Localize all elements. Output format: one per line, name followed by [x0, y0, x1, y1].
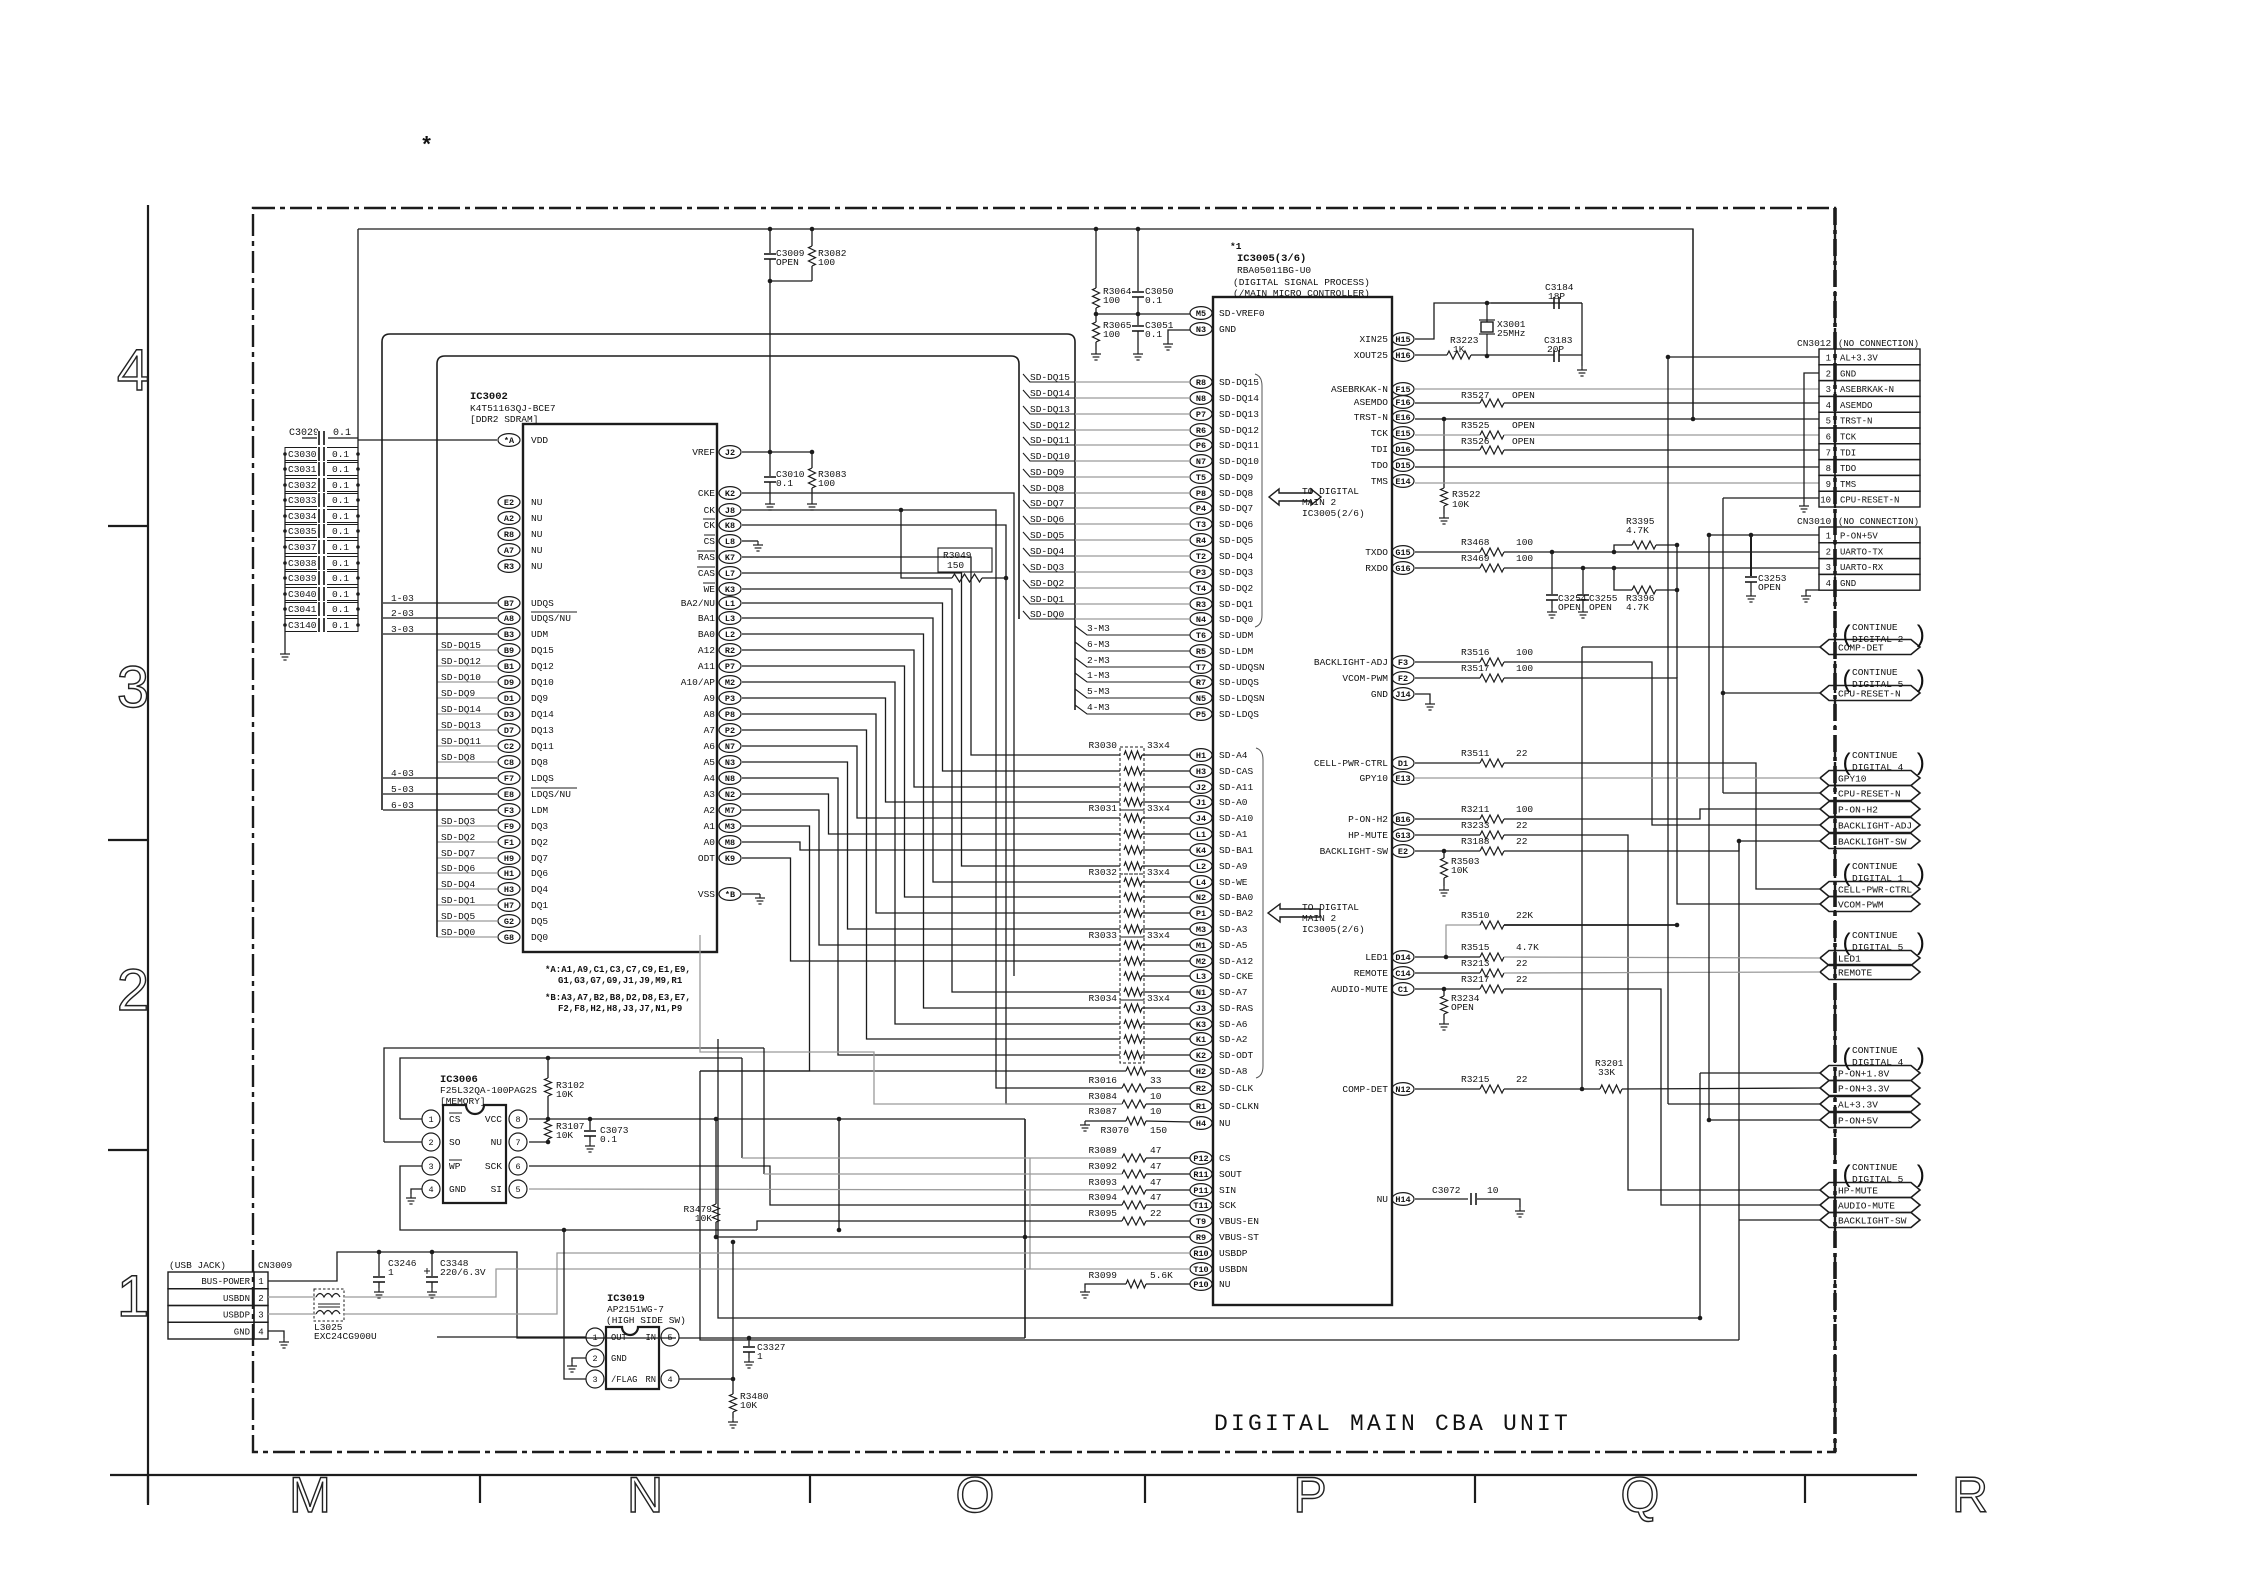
svg-text:2: 2: [1826, 369, 1831, 379]
svg-text:P2: P2: [725, 726, 735, 736]
IC3005 pin H14 NU: [1392, 1193, 1414, 1206]
IC3002 pin *B VSS ground: [742, 893, 760, 895]
svg-text:IC3005(3/6): IC3005(3/6): [1237, 253, 1306, 265]
svg-text:D1: D1: [504, 694, 514, 704]
svg-text:P8: P8: [725, 710, 735, 720]
IC3005 pin J2 SD-A11: [1190, 781, 1212, 794]
svg-text:IC3002: IC3002: [470, 391, 508, 403]
IC3002 pin E2 NU: [498, 496, 520, 509]
IC3006 memory body: [443, 1105, 506, 1203]
net flag P-ON+3.3V (page link): [1820, 1081, 1920, 1096]
capacitor C3255 OPEN: [1581, 566, 1586, 571]
svg-text:R3213: R3213: [1461, 958, 1490, 969]
resistor R3049 150: [938, 548, 992, 572]
svg-text:R6: R6: [1196, 426, 1206, 436]
svg-text:M2: M2: [725, 678, 735, 688]
resistor R3082 100: [811, 229, 813, 246]
resistor R3065 100: [1095, 314, 1097, 322]
svg-text:J2: J2: [725, 448, 735, 458]
svg-text:1-M3: 1-M3: [1087, 670, 1110, 681]
IC3002 pin D3 DQ14: [498, 708, 520, 721]
dash-dot board boundary: [253, 208, 1835, 1452]
IC3005 pin G15 TXDO: [1392, 546, 1414, 559]
IC3005 pin P12 CS: [1190, 1152, 1212, 1165]
svg-text:DQ0: DQ0: [531, 932, 548, 943]
svg-text:TCK: TCK: [1840, 433, 1857, 443]
inductor L3025 EXC24CG900U: [314, 1289, 344, 1321]
svg-text:M7: M7: [725, 806, 735, 816]
svg-text:SD-CKE: SD-CKE: [1219, 971, 1254, 982]
svg-text:G8: G8: [504, 933, 514, 943]
svg-text:VCOM-PWM: VCOM-PWM: [1838, 900, 1884, 911]
IC3005 pin G13 HP-MUTE: [1392, 829, 1414, 842]
svg-text:CONTINUE: CONTINUE: [1852, 1045, 1898, 1056]
svg-text:3: 3: [592, 1375, 597, 1385]
svg-text:SD-A3: SD-A3: [1219, 924, 1248, 935]
svg-text:SD-DQ8: SD-DQ8: [1030, 483, 1065, 494]
CN3012 GND pin2 ground: [1804, 373, 1819, 502]
svg-text:SI: SI: [491, 1184, 502, 1195]
svg-text:L3: L3: [1196, 972, 1206, 982]
IC3019 high side switch body: [606, 1327, 659, 1389]
IC3002 pin K2 CKE: [719, 487, 741, 500]
svg-text:C3040: C3040: [288, 589, 317, 600]
svg-text:0.1: 0.1: [600, 1134, 617, 1145]
wire XIN25 to crystal rail: [1415, 303, 1582, 339]
svg-text:3: 3: [117, 655, 149, 720]
svg-text:E16: E16: [1395, 413, 1410, 423]
svg-text:N2: N2: [725, 790, 735, 800]
svg-text:B7: B7: [504, 599, 514, 609]
svg-text:D3: D3: [504, 710, 514, 720]
svg-text:A12: A12: [698, 645, 715, 656]
svg-text:F3: F3: [1398, 658, 1408, 668]
svg-text:NU: NU: [531, 561, 543, 572]
IC3006 CS overline: [449, 1112, 462, 1114]
svg-text:100: 100: [818, 478, 835, 489]
IC3005 pin P11 SIN: [1190, 1184, 1212, 1197]
IC3005 pin P3 SD-DQ3: [1190, 566, 1212, 579]
svg-text:E15: E15: [1395, 429, 1410, 439]
svg-text:SIN: SIN: [1219, 1185, 1236, 1196]
svg-text:COMP-DET: COMP-DET: [1342, 1084, 1388, 1095]
IC3019 pin 3 /FLAG: [586, 1370, 604, 1388]
svg-text:P-ON+3.3V: P-ON+3.3V: [1838, 1084, 1890, 1095]
svg-text:R3510: R3510: [1461, 910, 1490, 921]
svg-text:J14: J14: [1395, 690, 1410, 700]
wire bottom bus 2: [700, 1071, 1739, 1340]
IC3005 pin M5 SD-VREF0: [1190, 307, 1212, 320]
svg-text:CN3009: CN3009: [258, 1260, 293, 1271]
svg-text:L4: L4: [1196, 878, 1206, 888]
svg-text:R3525: R3525: [1461, 420, 1490, 431]
net flag AUDIO-MUTE (page link): [1820, 1198, 1920, 1213]
svg-text:R3211: R3211: [1461, 804, 1490, 815]
svg-text:R3030: R3030: [1088, 740, 1117, 751]
IC3005 address group bracket: [1256, 748, 1263, 1078]
svg-text:R3: R3: [1196, 600, 1206, 610]
svg-text:N8: N8: [1196, 394, 1206, 404]
svg-text:1: 1: [258, 1277, 263, 1287]
svg-text:SD-DQ6: SD-DQ6: [1219, 519, 1254, 530]
svg-text:C3041: C3041: [288, 604, 317, 615]
svg-text:AUDIO-MUTE: AUDIO-MUTE: [1331, 984, 1388, 995]
svg-text:10: 10: [1820, 496, 1831, 506]
wire SCK net: [529, 1166, 1122, 1205]
IC3002 pin F7 LDQS: [498, 772, 520, 785]
IC3019 pin 1 OUT: [586, 1328, 604, 1346]
svg-text:EXC24CG900U: EXC24CG900U: [314, 1331, 377, 1342]
svg-text:(HIGH SIDE SW): (HIGH SIDE SW): [606, 1315, 686, 1326]
svg-text:CN3010: CN3010: [1797, 516, 1832, 527]
svg-text:H14: H14: [1395, 1195, 1410, 1205]
wire OUT net: [437, 1336, 586, 1338]
wire BUS-POWER: [268, 1252, 676, 1338]
svg-text:J4: J4: [1196, 814, 1206, 824]
svg-text:SD-DQ10: SD-DQ10: [1219, 456, 1259, 467]
svg-text:BUS-POWER: BUS-POWER: [201, 1277, 250, 1287]
svg-text:E8: E8: [504, 790, 514, 800]
svg-text:ASEBRKAK-N: ASEBRKAK-N: [1840, 385, 1894, 395]
svg-text:C3038: C3038: [288, 558, 317, 569]
svg-text:BACKLIGHT-SW: BACKLIGHT-SW: [1838, 837, 1907, 848]
wire SD-DQ1 to pin: [1075, 603, 1190, 605]
svg-text:SD-DQ5: SD-DQ5: [1219, 535, 1254, 546]
svg-text:A11: A11: [698, 661, 715, 672]
svg-text:F16: F16: [1395, 398, 1410, 408]
svg-text:REMOTE: REMOTE: [1354, 968, 1389, 979]
svg-text:UDQS/NU: UDQS/NU: [531, 613, 571, 624]
IC3005 pin R2 SD-CLK: [1190, 1082, 1212, 1095]
svg-text:): ): [1913, 751, 1927, 778]
svg-text:SD-DQ14: SD-DQ14: [1030, 388, 1070, 399]
IC3005 pin N12 COMP-DET: [1392, 1083, 1414, 1096]
svg-text:D15: D15: [1395, 461, 1410, 471]
svg-text:SD-BA2: SD-BA2: [1219, 908, 1254, 919]
svg-text:BACKLIGHT-ADJ: BACKLIGHT-ADJ: [1838, 821, 1912, 832]
svg-text:R3095: R3095: [1088, 1208, 1117, 1219]
wire R3395/R3396 stub down: [1676, 545, 1678, 678]
svg-text:1: 1: [117, 1264, 149, 1329]
svg-text:DQ11: DQ11: [531, 741, 554, 752]
svg-text:): ): [1913, 668, 1927, 695]
IC3005 pin T3 SD-DQ6: [1190, 518, 1212, 531]
wire CPU-RESET-N flag 2: [1723, 792, 1820, 794]
svg-text:SD-A10: SD-A10: [1219, 813, 1254, 824]
svg-text:R3188: R3188: [1461, 836, 1490, 847]
wire USBDN: [268, 1296, 316, 1298]
wire SOUT to R3092: [763, 1048, 765, 1174]
svg-text:150: 150: [1150, 1125, 1167, 1136]
capacitor C3327 1: [747, 1336, 752, 1341]
svg-text:R3: R3: [504, 562, 514, 572]
svg-text:H1: H1: [1196, 751, 1206, 761]
IC3005 pin M2 SD-A12: [1190, 955, 1212, 968]
IC3002 pin *B VSS: [719, 888, 741, 901]
svg-text:P8: P8: [1196, 489, 1206, 499]
svg-text:SD-A11: SD-A11: [1219, 782, 1254, 793]
svg-text:2: 2: [117, 958, 149, 1023]
wire P-ON+1.8V riser: [1699, 1073, 1701, 1318]
svg-text:UDM: UDM: [531, 629, 548, 640]
wire COMP-DET riser: [1581, 647, 1583, 1089]
svg-text:SD-A6: SD-A6: [1219, 1019, 1248, 1030]
svg-text:NU: NU: [1219, 1118, 1231, 1129]
svg-text:R3516: R3516: [1461, 647, 1490, 658]
svg-text:10K: 10K: [740, 1400, 757, 1411]
svg-text:J1: J1: [1196, 798, 1206, 808]
svg-text:BACKLIGHT-SW: BACKLIGHT-SW: [1838, 1216, 1907, 1227]
IC3005 pin R11 SOUT: [1190, 1168, 1212, 1181]
svg-text:22: 22: [1516, 836, 1528, 847]
svg-text:XIN25: XIN25: [1359, 334, 1388, 345]
sheet frame bottom border: [110, 1474, 1917, 1476]
resistor R3522 10K: [1443, 419, 1445, 488]
svg-text:GND: GND: [1840, 369, 1856, 379]
heavy dashed right boundary overlay: [1833, 208, 1837, 1452]
capacitor C3039 0.1: [285, 572, 358, 585]
svg-text:CPU-RESET-N: CPU-RESET-N: [1838, 789, 1901, 800]
IC3002 pin L2 BA0: [719, 628, 741, 641]
net flag GPY10 (page link): [1820, 771, 1920, 786]
wire SD-DQ4 to pin: [1075, 555, 1190, 557]
IC3002 pin A2 NU: [498, 512, 520, 525]
svg-text:6-M3: 6-M3: [1087, 639, 1110, 650]
wire AL+3.3V to CN3012 pin1: [1668, 356, 1819, 358]
svg-text:TMS: TMS: [1371, 476, 1388, 487]
wire clock CKE: [742, 493, 1014, 976]
svg-text:N8: N8: [725, 774, 735, 784]
svg-text:4: 4: [258, 1327, 263, 1337]
IC3002 pin J2 VREF: [719, 446, 741, 459]
net flag BACKLIGHT-SW (page link): [1820, 1213, 1920, 1228]
svg-text:5-M3: 5-M3: [1087, 686, 1110, 697]
wire P-ON-H2 route: [1504, 809, 1820, 819]
svg-text:0.1: 0.1: [332, 589, 349, 600]
svg-text:DQ8: DQ8: [531, 757, 548, 768]
IC3002 pin H3 DQ4: [498, 883, 520, 896]
wire SD-DQ10 to pin: [1075, 460, 1190, 462]
svg-text:0.1: 0.1: [332, 495, 349, 506]
IC3005 pin N8 SD-DQ14: [1190, 392, 1212, 405]
svg-text:CKE: CKE: [698, 488, 715, 499]
svg-text:N7: N7: [1196, 457, 1206, 467]
svg-text:WE: WE: [704, 584, 716, 595]
svg-text:A5: A5: [704, 757, 716, 768]
capacitor C3033 0.1: [285, 494, 358, 507]
svg-text:F3: F3: [504, 806, 514, 816]
wire SD-DQ6 to pin: [1075, 523, 1190, 525]
svg-text:SD-CLK: SD-CLK: [1219, 1083, 1254, 1094]
svg-text:): ): [1913, 931, 1927, 958]
svg-text:F7: F7: [504, 774, 514, 784]
svg-text:3: 3: [258, 1311, 263, 1321]
svg-text:SD-DQ6: SD-DQ6: [1030, 514, 1065, 525]
svg-text:100: 100: [1516, 537, 1533, 548]
svg-text:LDQS/NU: LDQS/NU: [531, 789, 571, 800]
svg-text:A0: A0: [704, 837, 716, 848]
IC3005 pin T5 SD-DQ9: [1190, 471, 1212, 484]
capacitor C3050 0.1: [1137, 229, 1139, 291]
wire /FLAG net: [564, 1230, 586, 1379]
wire ASEBRKAK-N: [1415, 388, 1819, 390]
IC3005 pin C14 REMOTE: [1392, 967, 1414, 980]
net flag P-ON+1.8V (page link): [1820, 1066, 1920, 1081]
IC3002 pin R3 NU: [498, 560, 520, 573]
IC3002 pin C2 DQ11: [498, 740, 520, 753]
svg-text:SD-BA1: SD-BA1: [1219, 845, 1254, 856]
svg-text:(DIGITAL SIGNAL PROCESS): (DIGITAL SIGNAL PROCESS): [1233, 277, 1370, 288]
wire memory rail upper: [384, 1048, 764, 1142]
IC3006 pin 5 SI: [509, 1180, 527, 1198]
IC3002 pin D1 DQ9: [498, 692, 520, 705]
svg-text:VCOM-PWM: VCOM-PWM: [1342, 673, 1388, 684]
svg-text:LED1: LED1: [1365, 952, 1388, 963]
svg-text:T6: T6: [1196, 631, 1206, 641]
svg-text:OPEN: OPEN: [1589, 602, 1612, 613]
svg-text:P-ON-H2: P-ON-H2: [1348, 814, 1388, 825]
svg-text:HP-MUTE: HP-MUTE: [1348, 830, 1388, 841]
svg-text:F2,F8,H2,H8,J3,J7,N1,P9: F2,F8,H2,H8,J3,J7,N1,P9: [558, 1004, 682, 1014]
svg-text:10: 10: [1487, 1185, 1499, 1196]
svg-text:0.1: 0.1: [332, 604, 349, 615]
svg-text:SD-A0: SD-A0: [1219, 797, 1248, 808]
svg-text:USBDN: USBDN: [223, 1294, 250, 1304]
IC3005 pin H15 XIN25: [1392, 333, 1414, 346]
IC3005 pin K2 SD-ODT: [1190, 1049, 1212, 1062]
svg-text:SD-DQ4: SD-DQ4: [1030, 546, 1065, 557]
svg-text:ASEMDO: ASEMDO: [1354, 397, 1389, 408]
svg-text:100: 100: [818, 257, 835, 268]
svg-text:SD-A4: SD-A4: [1219, 750, 1248, 761]
wire CPU-RESET-N to CN3012 pin10: [1723, 497, 1819, 499]
svg-text:UARTO-TX: UARTO-TX: [1840, 547, 1884, 557]
svg-text:CONTINUE: CONTINUE: [1852, 667, 1898, 678]
svg-text:22: 22: [1516, 958, 1528, 969]
capacitor C3140 0.1: [285, 619, 358, 632]
svg-text:UARTO-RX: UARTO-RX: [1840, 563, 1884, 573]
svg-text:GND: GND: [234, 1327, 250, 1337]
svg-text:2-M3: 2-M3: [1087, 655, 1110, 666]
svg-text:18P: 18P: [1548, 291, 1565, 302]
svg-text:N5: N5: [1196, 694, 1206, 704]
svg-text:NU: NU: [1219, 1279, 1231, 1290]
svg-text:SD-A7: SD-A7: [1219, 987, 1248, 998]
svg-text:M3: M3: [725, 822, 735, 832]
column tick marks: [147, 1475, 149, 1503]
svg-text:SD-LDQSN: SD-LDQSN: [1219, 693, 1265, 704]
IC3005 pin R10 USBDP: [1190, 1247, 1212, 1260]
svg-text:SD-DQ15: SD-DQ15: [1219, 377, 1259, 388]
net flag BACKLIGHT-ADJ (page link): [1820, 818, 1920, 833]
capacitor C3254 OPEN: [1550, 550, 1555, 555]
svg-text:A7: A7: [504, 546, 514, 556]
svg-text:10K: 10K: [556, 1130, 573, 1141]
svg-text:0.1: 0.1: [1145, 295, 1162, 306]
svg-text:R2: R2: [1196, 1084, 1206, 1094]
IC3006 GND pin ground: [411, 1189, 422, 1194]
svg-text:L1: L1: [1196, 830, 1206, 840]
IC3005 pin J3 SD-RAS: [1190, 1002, 1212, 1015]
wire SD-VREF0: [1096, 313, 1190, 315]
svg-text:SO: SO: [449, 1137, 461, 1148]
svg-text:LDQS: LDQS: [531, 773, 554, 784]
svg-text:N3: N3: [1196, 325, 1206, 335]
IC3005 pin C1 AUDIO-MUTE: [1392, 983, 1414, 996]
svg-text:CONTINUE: CONTINUE: [1852, 750, 1898, 761]
svg-text:4: 4: [117, 338, 149, 403]
svg-text:8: 8: [1826, 464, 1831, 474]
IC3005 pin B16 P-ON-H2: [1392, 813, 1414, 826]
svg-text:SD-A12: SD-A12: [1219, 956, 1254, 967]
svg-text:0.1: 0.1: [332, 480, 349, 491]
svg-text:7: 7: [515, 1138, 520, 1148]
IC3005 pin R7 SD-UDQS: [1190, 676, 1212, 689]
svg-text:C3031: C3031: [288, 464, 317, 475]
sheet frame left border: [147, 205, 149, 1505]
svg-text:M: M: [289, 1467, 331, 1523]
IC3005 pin L3 SD-CKE: [1190, 970, 1212, 983]
resistor R3503 10K: [1443, 851, 1445, 858]
capacitor C3246 1: [377, 1250, 382, 1255]
svg-text:C3030: C3030: [288, 449, 317, 460]
svg-text:SD-DQ4: SD-DQ4: [1219, 551, 1254, 562]
svg-text:1K: 1K: [1453, 344, 1465, 355]
svg-text:SD-DQ8: SD-DQ8: [1219, 488, 1254, 499]
svg-text:P7: P7: [725, 662, 735, 672]
svg-text:C3034: C3034: [288, 511, 317, 522]
svg-text:2: 2: [428, 1138, 433, 1148]
wire bottom bus 1: [718, 1039, 1700, 1318]
svg-text:SD-DQ10: SD-DQ10: [1030, 451, 1070, 462]
arrow TO DIGITAL MAIN 2 (upper): [1269, 489, 1321, 505]
svg-text:1: 1: [757, 1351, 763, 1362]
wire gray staircase CLKN route: [700, 935, 1122, 1104]
IC3002 pin P7 A11: [719, 660, 741, 673]
capacitor C3072 10: [1415, 1198, 1468, 1200]
wire TDO: [1415, 466, 1819, 468]
IC3005 pin R6 SD-DQ12: [1190, 424, 1212, 437]
svg-text:DQ13: DQ13: [531, 725, 554, 736]
capacitor C3040 0.1: [285, 588, 358, 601]
svg-text:N1: N1: [1196, 988, 1206, 998]
ground (crystal): [1577, 366, 1587, 376]
IC3002 pin F9 DQ3: [498, 820, 520, 833]
wire TMS riser top: [1692, 229, 1694, 419]
svg-text:UDQS: UDQS: [531, 598, 554, 609]
capacitor C3348 220/6.3V (polarized): [430, 1250, 435, 1255]
IC3005 pin L1 SD-A1: [1190, 828, 1212, 841]
capacitor stack left bus: [284, 454, 286, 650]
svg-text:G2: G2: [504, 917, 514, 927]
IC3006 WP overline: [449, 1159, 462, 1161]
svg-text:47: 47: [1150, 1177, 1161, 1188]
svg-text:3: 3: [428, 1162, 433, 1172]
resistor R3083 100: [811, 452, 813, 468]
svg-text:H15: H15: [1395, 335, 1410, 345]
wire COMP-DET to flag: [1582, 646, 1820, 648]
svg-text:SD-A2: SD-A2: [1219, 1034, 1248, 1045]
svg-text:SD-CAS: SD-CAS: [1219, 766, 1254, 777]
wire VCC branch riser: [838, 1119, 840, 1230]
svg-text:2: 2: [1826, 547, 1831, 557]
svg-text:100: 100: [1103, 329, 1120, 340]
svg-text:B1: B1: [504, 662, 514, 672]
svg-text:R: R: [1952, 1467, 1988, 1523]
svg-text:ASEMDO: ASEMDO: [1840, 401, 1872, 411]
capacitor C3037 0.1: [285, 541, 358, 554]
svg-text:4: 4: [1826, 579, 1831, 589]
